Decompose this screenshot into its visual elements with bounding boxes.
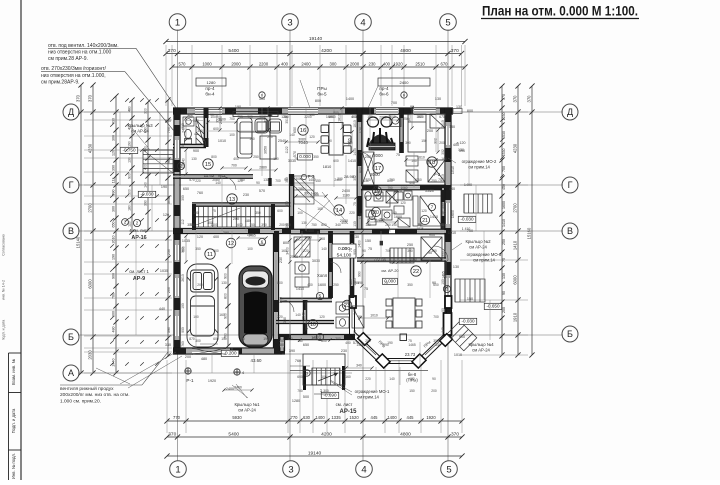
svg-text:1410: 1410 xyxy=(441,174,445,182)
svg-text:120: 120 xyxy=(287,337,293,341)
svg-text:390: 390 xyxy=(289,349,295,353)
svg-text:200: 200 xyxy=(439,141,445,145)
svg-text:1600: 1600 xyxy=(451,210,455,218)
svg-text:Подп. и дата: Подп. и дата xyxy=(11,408,16,433)
extra tiny horizontal dim rows inside plan xyxy=(208,121,236,123)
bay pier SW corner xyxy=(376,354,390,368)
room circle 12 xyxy=(226,238,236,248)
svg-text:160: 160 xyxy=(441,157,447,161)
svg-text:АР-16: АР-16 xyxy=(131,235,146,241)
svg-text:180: 180 xyxy=(127,205,131,211)
room circle 10 xyxy=(308,319,317,328)
svg-text:1400: 1400 xyxy=(387,415,397,420)
left upper sub-chain 2 xyxy=(143,99,150,232)
svg-text:330: 330 xyxy=(165,343,171,347)
svg-text:300: 300 xyxy=(407,249,413,253)
svg-text:инв. № 14-2: инв. № 14-2 xyxy=(2,280,6,300)
svg-text:5400: 5400 xyxy=(228,48,239,54)
svg-text:2540: 2540 xyxy=(301,312,305,320)
svg-text:1410: 1410 xyxy=(502,219,506,227)
top detail dimension chain xyxy=(169,61,467,69)
svg-text:1400: 1400 xyxy=(210,223,218,227)
bay window erker outline xyxy=(350,298,452,364)
right dimension chain outer 15160 xyxy=(526,83,534,357)
svg-text:770: 770 xyxy=(365,178,371,182)
svg-text:3: 3 xyxy=(287,17,292,28)
svg-text:Д: Д xyxy=(567,107,573,117)
svg-text:700: 700 xyxy=(275,179,281,183)
svg-text:400: 400 xyxy=(383,61,391,66)
svg-text:90: 90 xyxy=(362,249,366,253)
axis circle 1 bottom xyxy=(170,461,187,478)
window right wall xyxy=(445,203,451,224)
room circle 17 xyxy=(373,163,383,173)
svg-text:250: 250 xyxy=(253,155,259,159)
svg-text:600: 600 xyxy=(433,283,439,287)
svg-text:200: 200 xyxy=(502,307,506,313)
svg-text:770 790: 770 790 xyxy=(374,258,386,262)
garage door opening marks xyxy=(192,349,226,355)
window sill marks left wall xyxy=(174,140,180,158)
svg-text:бн-6: бн-6 xyxy=(379,92,389,97)
marker circle 1 xyxy=(316,333,323,340)
interior wall bedroom south (axis Г) xyxy=(361,185,446,189)
svg-text:3030: 3030 xyxy=(167,196,171,204)
svg-text:900: 900 xyxy=(181,327,185,333)
svg-text:100: 100 xyxy=(297,211,303,215)
svg-text:4200: 4200 xyxy=(321,48,332,54)
hall upper closet hatch xyxy=(294,178,314,202)
room circle 23 xyxy=(342,300,352,310)
svg-text:900: 900 xyxy=(223,313,227,319)
svg-text:Взам. инв. №: Взам. инв. № xyxy=(11,359,16,385)
interior wall small xyxy=(276,321,334,324)
svg-text:230: 230 xyxy=(341,349,347,353)
svg-text:150: 150 xyxy=(365,239,371,243)
bay pier left-top xyxy=(350,296,357,308)
svg-text:140: 140 xyxy=(295,313,301,317)
svg-text:150: 150 xyxy=(315,179,321,183)
marker b small top right xyxy=(401,92,407,98)
marker circle 3 xyxy=(443,285,450,292)
svg-text:150: 150 xyxy=(409,389,415,393)
left wall pier xyxy=(174,125,180,136)
svg-text:1400: 1400 xyxy=(356,343,364,347)
left upper sub-chain xyxy=(127,97,134,234)
svg-text:140: 140 xyxy=(353,309,357,315)
bed room 18 xyxy=(408,114,445,182)
svg-text:1280: 1280 xyxy=(207,80,217,85)
svg-text:11: 11 xyxy=(207,252,213,258)
svg-text:120: 120 xyxy=(400,201,406,205)
right wall pier xyxy=(445,108,451,122)
svg-text:200: 200 xyxy=(233,217,239,221)
top overall dimension 19140 xyxy=(163,36,467,44)
top wall pier xyxy=(345,108,374,114)
svg-text:340: 340 xyxy=(356,364,362,368)
svg-text:300: 300 xyxy=(111,311,115,317)
svg-text:1910: 1910 xyxy=(512,312,517,322)
svg-text:1465: 1465 xyxy=(353,278,357,286)
svg-text:400: 400 xyxy=(143,164,147,170)
svg-text:700: 700 xyxy=(297,389,303,393)
svg-text:390: 390 xyxy=(167,327,171,333)
svg-text:990: 990 xyxy=(441,251,445,257)
svg-text:250: 250 xyxy=(333,283,339,287)
svg-text:4: 4 xyxy=(361,464,366,475)
dark corridor wall band xyxy=(372,229,417,234)
svg-text:400: 400 xyxy=(213,235,219,239)
svg-text:В: В xyxy=(567,226,573,236)
svg-text:90: 90 xyxy=(432,377,436,381)
room 14 leader cluster xyxy=(298,192,348,228)
svg-text:800: 800 xyxy=(211,155,217,159)
svg-text:590: 590 xyxy=(181,247,185,253)
svg-text:130: 130 xyxy=(359,213,363,219)
svg-text:140: 140 xyxy=(435,343,441,347)
svg-text:190: 190 xyxy=(127,141,131,147)
svg-text:5: 5 xyxy=(445,17,450,28)
svg-text:1600: 1600 xyxy=(502,201,506,209)
svg-text:ограждение МО-3: ограждение МО-3 xyxy=(467,252,502,257)
svg-text:90: 90 xyxy=(312,337,316,341)
sidebar divider 1 xyxy=(9,352,22,354)
svg-text:100: 100 xyxy=(247,247,253,251)
svg-text:2000: 2000 xyxy=(370,172,380,177)
svg-text:370: 370 xyxy=(168,431,176,437)
svg-text:302: 302 xyxy=(353,175,357,181)
svg-text:770: 770 xyxy=(373,186,379,190)
svg-text:370: 370 xyxy=(75,94,80,102)
svg-text:-0.650: -0.650 xyxy=(486,304,499,309)
svg-text:отв. 270х230/3мм /горизонт/: отв. 270х230/3мм /горизонт/ xyxy=(41,66,107,72)
svg-text:445: 445 xyxy=(407,415,415,420)
svg-text:см АР-24: см АР-24 xyxy=(238,408,256,413)
top main dimension chain xyxy=(163,48,464,56)
garage wall pier xyxy=(173,348,186,354)
grand piano / plant figure room 17 xyxy=(367,117,395,150)
svg-text:300: 300 xyxy=(111,206,115,212)
svg-text:4800: 4800 xyxy=(400,48,411,54)
svg-text:760: 760 xyxy=(181,341,185,347)
svg-text:2610: 2610 xyxy=(181,274,185,282)
left main dimension chain xyxy=(87,82,95,375)
svg-text:15: 15 xyxy=(205,162,211,168)
marker circle 7 xyxy=(428,203,435,210)
small stair near bay (tambour) xyxy=(390,248,414,263)
svg-text:120: 120 xyxy=(163,213,169,217)
svg-text:1810: 1810 xyxy=(353,120,357,128)
svg-text:1810: 1810 xyxy=(323,165,331,169)
interior wall hall/wc xyxy=(329,231,333,298)
svg-text:2460: 2460 xyxy=(334,178,342,182)
svg-text:330: 330 xyxy=(283,317,287,323)
axis circle 1 top xyxy=(169,14,186,31)
svg-text:6000: 6000 xyxy=(87,279,92,289)
svg-text:1400: 1400 xyxy=(346,97,354,101)
svg-text:190: 190 xyxy=(441,279,445,285)
axis circle В left xyxy=(63,223,79,239)
svg-text:1280: 1280 xyxy=(292,399,300,403)
svg-text:2460: 2460 xyxy=(234,386,242,390)
right wall pier xyxy=(445,328,451,338)
svg-text:ПРы: ПРы xyxy=(317,86,327,91)
svg-text:300: 300 xyxy=(323,389,329,393)
svg-text:3610: 3610 xyxy=(407,114,411,122)
svg-text:1530: 1530 xyxy=(502,149,506,157)
partition line living room xyxy=(269,108,271,186)
bottom exit stair xyxy=(305,366,344,390)
svg-text:2400: 2400 xyxy=(301,61,311,66)
svg-text:54.100: 54.100 xyxy=(337,253,352,259)
svg-text:2610: 2610 xyxy=(111,236,115,244)
svg-text:570: 570 xyxy=(189,178,195,182)
svg-text:1400: 1400 xyxy=(464,183,472,187)
svg-text:480: 480 xyxy=(181,143,185,149)
marker circle 6 xyxy=(258,238,265,245)
svg-text:200: 200 xyxy=(431,389,437,393)
svg-text:3400: 3400 xyxy=(285,247,289,255)
svg-text:2200: 2200 xyxy=(304,115,312,119)
svg-text:1400: 1400 xyxy=(308,178,316,182)
svg-text:ограждение МО-2: ограждение МО-2 xyxy=(462,159,497,164)
level -0.030 porch2 xyxy=(459,318,476,324)
svg-text:990: 990 xyxy=(383,343,389,347)
bottom main dimension chain xyxy=(164,431,464,439)
svg-text:120: 120 xyxy=(111,150,115,156)
svg-text:600: 600 xyxy=(277,209,283,213)
axis circle 5 top xyxy=(440,14,457,31)
svg-text:760: 760 xyxy=(197,191,203,195)
room circle 16 xyxy=(298,125,308,135)
boiler room fixtures xyxy=(294,237,310,287)
svg-text:100: 100 xyxy=(411,159,417,163)
svg-text:700: 700 xyxy=(239,178,245,182)
svg-text:130: 130 xyxy=(191,157,197,161)
svg-text:0.000: 0.000 xyxy=(299,154,311,159)
top wall pier xyxy=(225,108,236,114)
svg-text:200: 200 xyxy=(167,287,171,293)
left wall pier xyxy=(174,205,180,216)
svg-text:4 см. лист: 4 см. лист xyxy=(129,228,149,233)
svg-text:75: 75 xyxy=(294,157,298,161)
interior corridor wall axis В xyxy=(291,229,446,234)
svg-text:400: 400 xyxy=(351,115,357,119)
room circle 18 xyxy=(427,157,437,167)
window top wall xyxy=(195,108,222,114)
marker circle 2 xyxy=(177,162,184,169)
right wall pier xyxy=(445,300,451,312)
left wall pier xyxy=(174,228,180,240)
svg-text:1000: 1000 xyxy=(218,118,226,122)
svg-text:21: 21 xyxy=(422,218,428,224)
svg-text:75: 75 xyxy=(364,287,368,291)
svg-text:140: 140 xyxy=(441,327,445,333)
window right wall xyxy=(445,278,451,296)
bay window glazing xyxy=(358,338,376,355)
svg-text:350: 350 xyxy=(313,155,319,159)
svg-text:340: 340 xyxy=(335,223,341,227)
axis line А horizontal xyxy=(78,372,352,374)
svg-text:700: 700 xyxy=(231,164,237,168)
interior wall bath west xyxy=(204,108,207,147)
svg-text:650: 650 xyxy=(303,343,309,347)
svg-text:300: 300 xyxy=(259,243,265,247)
exterior left wall xyxy=(174,108,180,351)
svg-text:120: 120 xyxy=(359,127,363,133)
svg-text:2000: 2000 xyxy=(373,153,383,158)
svg-text:190: 190 xyxy=(263,337,269,341)
svg-text:350: 350 xyxy=(255,211,261,215)
svg-text:250: 250 xyxy=(385,223,391,227)
svg-text:230: 230 xyxy=(279,257,283,263)
top-left bath hatch xyxy=(196,120,204,145)
svg-text:400: 400 xyxy=(307,283,313,287)
svg-text:2700: 2700 xyxy=(512,203,517,213)
svg-text:370: 370 xyxy=(87,94,92,102)
svg-text:140: 140 xyxy=(389,377,395,381)
svg-text:1920: 1920 xyxy=(393,61,403,66)
axis circle Г right xyxy=(562,177,578,193)
svg-text:300: 300 xyxy=(405,141,411,145)
svg-text:1410: 1410 xyxy=(348,159,356,163)
svg-text:-0.200: -0.200 xyxy=(223,351,236,356)
svg-text:220: 220 xyxy=(267,135,273,139)
svg-text:370: 370 xyxy=(526,95,531,103)
svg-text:1335: 1335 xyxy=(331,415,341,420)
svg-text:250: 250 xyxy=(167,249,171,255)
left wall pier xyxy=(174,340,180,351)
svg-text:см АР-24: см АР-24 xyxy=(469,245,487,250)
axis circle Б left xyxy=(63,329,79,345)
svg-text:10: 10 xyxy=(310,322,316,328)
svg-text:250: 250 xyxy=(502,239,506,245)
svg-text:1035: 1035 xyxy=(248,234,256,238)
svg-text:отв. под вентил. 140х200/3мм.: отв. под вентил. 140х200/3мм. xyxy=(48,43,119,49)
svg-text:130: 130 xyxy=(301,221,307,225)
svg-text:760: 760 xyxy=(223,333,227,339)
svg-text:190: 190 xyxy=(193,211,199,215)
room circle 14 xyxy=(334,205,344,215)
svg-text:870: 870 xyxy=(189,337,195,341)
svg-text:900: 900 xyxy=(429,233,435,237)
svg-text:800: 800 xyxy=(467,109,473,113)
svg-text:200: 200 xyxy=(185,355,191,359)
svg-text:Крыльцо №1: Крыльцо №1 xyxy=(234,402,260,407)
svg-text:1410: 1410 xyxy=(296,287,304,291)
level -0.030 left xyxy=(138,191,155,197)
room circle 20 xyxy=(371,207,380,216)
svg-text:4230: 4230 xyxy=(87,143,92,153)
svg-text:390: 390 xyxy=(261,223,267,227)
svg-text:19140: 19140 xyxy=(308,450,322,456)
svg-text:75: 75 xyxy=(384,281,388,285)
svg-text:700: 700 xyxy=(502,166,506,172)
level box 0.000/54.100 hall xyxy=(332,244,356,259)
svg-text:670: 670 xyxy=(439,115,445,119)
interior wall hall west xyxy=(290,174,294,229)
marker circle пр near bottom xyxy=(304,370,310,376)
svg-text:1 410: 1 410 xyxy=(462,227,471,231)
svg-text:ограждение МО-1: ограждение МО-1 xyxy=(355,389,390,394)
svg-text:1600: 1600 xyxy=(304,236,312,240)
room circle 13 xyxy=(227,194,237,204)
sidebar inner vertical line xyxy=(8,353,10,480)
left wall pier xyxy=(174,160,180,172)
svg-text:2400: 2400 xyxy=(400,80,410,85)
svg-text:300: 300 xyxy=(247,115,253,119)
svg-text:150: 150 xyxy=(431,249,437,253)
bathroom 20 fixtures xyxy=(366,196,442,226)
svg-text:1400: 1400 xyxy=(306,229,314,233)
svg-text:1530: 1530 xyxy=(502,131,506,139)
svg-text:400: 400 xyxy=(233,157,239,161)
step wall garage-middle xyxy=(280,337,285,351)
svg-text:300: 300 xyxy=(239,337,245,341)
svg-text:подп. и дата: подп. и дата xyxy=(2,320,6,341)
svg-text:300: 300 xyxy=(127,189,131,195)
bay pier right-top xyxy=(445,296,452,308)
svg-text:бн-4: бн-4 xyxy=(205,92,215,97)
top wall pier xyxy=(173,108,187,114)
window top wall xyxy=(414,108,436,114)
svg-text:370: 370 xyxy=(502,94,506,100)
right wall pier xyxy=(445,228,451,242)
bedroom 18 side tables xyxy=(406,156,418,182)
svg-text:700: 700 xyxy=(385,249,391,253)
hall closet lines xyxy=(294,176,314,204)
svg-text:160: 160 xyxy=(345,375,351,379)
svg-text:пр-4: пр-4 xyxy=(205,86,215,91)
svg-text:570: 570 xyxy=(259,189,265,193)
svg-text:1875: 1875 xyxy=(416,227,423,231)
svg-text:низ отверстия на отм.1.000,: низ отверстия на отм.1.000, xyxy=(41,73,106,79)
interior wall stair north xyxy=(192,203,291,206)
svg-text:см. лист: см. лист xyxy=(336,402,353,407)
left wall pier xyxy=(174,262,180,274)
svg-text:900: 900 xyxy=(459,335,465,339)
svg-text:Б: Б xyxy=(567,329,573,339)
room circle 15 xyxy=(203,159,213,169)
svg-text:1600: 1600 xyxy=(318,283,326,287)
svg-text:700: 700 xyxy=(433,315,439,319)
svg-text:АР-15: АР-15 xyxy=(339,409,357,415)
exterior top wall xyxy=(173,108,453,114)
porch #4 steps bottom-right diagonal xyxy=(447,321,477,351)
window right wall xyxy=(445,126,451,145)
svg-text:12: 12 xyxy=(228,241,234,247)
axis circle Г left xyxy=(63,177,79,193)
level -0.690 exit xyxy=(321,392,338,398)
extra fixtures rooms 19-21 xyxy=(366,191,418,227)
svg-text:112: 112 xyxy=(111,178,115,184)
svg-text:590: 590 xyxy=(441,203,445,209)
exterior right wall xyxy=(445,108,451,338)
svg-text:300: 300 xyxy=(259,115,265,119)
sidebar divider 3 xyxy=(9,449,22,451)
extra tiny vertical dim rows inside plan xyxy=(185,118,187,140)
svg-text:Р-2: Р-2 xyxy=(434,172,441,177)
interior wall wc north xyxy=(280,298,332,301)
svg-text:200: 200 xyxy=(427,129,433,133)
terrace edge below bay xyxy=(290,370,428,372)
right wall pier xyxy=(445,262,451,275)
svg-text:250: 250 xyxy=(365,339,371,343)
svg-text:200: 200 xyxy=(279,339,285,343)
garage wall pier xyxy=(230,348,242,354)
svg-text:90: 90 xyxy=(442,211,446,215)
axis circle 3 bottom xyxy=(283,461,300,478)
